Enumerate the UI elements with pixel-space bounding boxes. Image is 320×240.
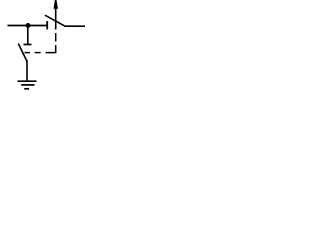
switch S1b fixed contact T-bar (24, 44, 32, 46)
node junction dot (26, 23, 31, 28)
wire vertical stem from junction to lower contact (27, 26, 29, 45)
mechanical linkage dash horizontal middle (35, 52, 41, 54)
actuator arrow head (54, 0, 59, 9)
actuator arrow shaft (55, 8, 57, 30)
wire top-right horizontal (64, 25, 85, 27)
mechanical linkage dash horizontal left (25, 52, 31, 54)
ground bar 1 (18, 80, 37, 82)
wire vertical to ground (26, 60, 28, 81)
mechanical linkage dash vertical (55, 33, 57, 42)
switch S1b blade (18, 44, 27, 62)
switch S1a blade (45, 15, 65, 26)
ground bar 3 (24, 88, 29, 90)
mechanical linkage elbow (46, 45, 56, 53)
wire top-left horizontal (8, 25, 47, 27)
ground bar 2 (21, 84, 34, 86)
switch S1a fixed contact tick (46, 21, 48, 29)
